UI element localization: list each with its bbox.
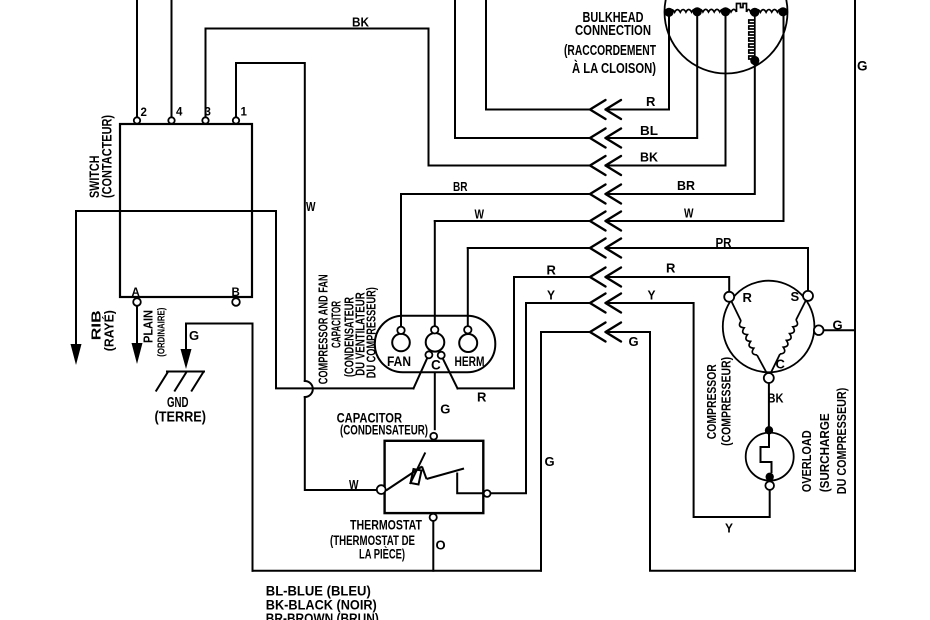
svg-text:BL: BL — [640, 123, 658, 138]
svg-text:R: R — [666, 261, 676, 276]
svg-text:A: A — [132, 287, 140, 299]
svg-text:2: 2 — [141, 107, 147, 119]
svg-text:PR: PR — [716, 235, 733, 250]
svg-text:BK: BK — [768, 391, 785, 406]
svg-text:À LA CLOISON): À LA CLOISON) — [572, 60, 656, 77]
svg-text:G: G — [833, 318, 843, 333]
svg-text:Y: Y — [725, 521, 733, 536]
svg-text:(CONDENSATEUR): (CONDENSATEUR) — [340, 423, 428, 438]
svg-text:THERMOSTAT: THERMOSTAT — [350, 518, 423, 533]
svg-text:BR-BROWN (BRUN): BR-BROWN (BRUN) — [266, 611, 379, 620]
svg-text:G: G — [545, 454, 555, 469]
svg-text:4: 4 — [176, 107, 183, 119]
svg-text:R: R — [646, 94, 656, 109]
svg-text:BK: BK — [352, 15, 370, 30]
svg-text:COMPRESSOR: COMPRESSOR — [704, 364, 719, 439]
svg-text:(SURCHARGE: (SURCHARGE — [817, 413, 832, 492]
svg-text:OVERLOAD: OVERLOAD — [799, 430, 814, 492]
svg-text:Y: Y — [648, 288, 656, 303]
svg-text:BR: BR — [677, 178, 696, 193]
svg-text:R: R — [547, 263, 557, 278]
svg-text:(COMPRESSEUR): (COMPRESSEUR) — [719, 357, 734, 446]
svg-text:CONNECTION: CONNECTION — [575, 23, 651, 39]
svg-text:HERM: HERM — [455, 354, 485, 369]
svg-text:G: G — [440, 402, 450, 417]
svg-text:BK: BK — [640, 150, 659, 165]
svg-text:1: 1 — [241, 107, 248, 119]
svg-text:FAN: FAN — [387, 354, 411, 369]
svg-text:(RACCORDEMENT: (RACCORDEMENT — [564, 43, 656, 59]
svg-text:W: W — [349, 477, 359, 492]
svg-text:W: W — [475, 207, 485, 222]
svg-text:LA PIÈCE): LA PIÈCE) — [359, 547, 405, 562]
svg-text:(TERRE): (TERRE) — [155, 410, 207, 426]
svg-text:G: G — [189, 328, 199, 343]
svg-text:BL-BLUE (BLEU): BL-BLUE (BLEU) — [266, 584, 371, 599]
svg-text:(CONTACTEUR): (CONTACTEUR) — [100, 115, 115, 198]
svg-text:O: O — [436, 538, 446, 553]
svg-text:G: G — [629, 334, 639, 349]
svg-text:R: R — [743, 290, 753, 305]
svg-text:R: R — [477, 390, 487, 405]
svg-text:S: S — [791, 289, 800, 304]
svg-text:W: W — [684, 206, 694, 221]
svg-text:C: C — [431, 358, 441, 373]
svg-text:DU COMPRESSEUR): DU COMPRESSEUR) — [364, 287, 379, 378]
svg-text:(ORDINAIRE): (ORDINAIRE) — [156, 308, 168, 357]
svg-text:Y: Y — [547, 288, 555, 303]
svg-text:BR: BR — [453, 179, 468, 194]
svg-text:C: C — [776, 357, 786, 372]
svg-text:DU COMPRESSEUR): DU COMPRESSEUR) — [834, 388, 849, 495]
svg-text:3: 3 — [205, 107, 211, 119]
svg-text:B: B — [232, 287, 240, 299]
svg-text:G: G — [857, 59, 868, 74]
svg-text:PLAIN: PLAIN — [141, 310, 156, 343]
svg-text:W: W — [306, 199, 316, 214]
svg-text:(RAYÉ): (RAYÉ) — [102, 310, 117, 351]
